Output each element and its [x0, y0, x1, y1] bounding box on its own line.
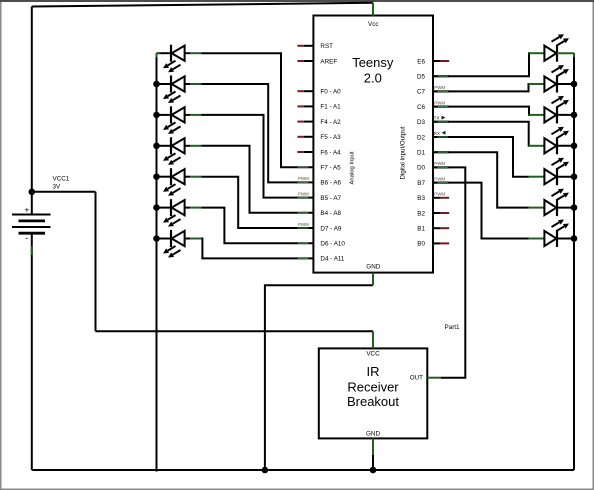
svg-text:B2: B2	[417, 210, 425, 217]
Teensy pin D3	[417, 116, 449, 127]
svg-text:B0: B0	[417, 241, 425, 248]
svg-text:F6 - A4: F6 - A4	[320, 149, 341, 156]
Teensy pin B3	[417, 192, 449, 203]
svg-text:Vcc: Vcc	[368, 21, 379, 28]
svg-text:3V: 3V	[53, 184, 62, 191]
svg-text:PWM: PWM	[298, 176, 309, 181]
LED LED9 (right column, row y=84)	[529, 65, 575, 93]
junction GND branch on bottom bus	[262, 467, 269, 474]
Teensy pin D6 - A10	[297, 241, 345, 248]
Teensy pin C6	[417, 100, 449, 111]
wire LED7 anode to pin D4-A11	[202, 239, 298, 259]
svg-text:C6: C6	[417, 104, 426, 111]
junction left bus at LED7	[153, 235, 160, 242]
svg-text:-: -	[25, 233, 28, 243]
IR Receiver Breakout module Part1	[319, 324, 460, 439]
Teensy pin F0 - A0	[297, 89, 341, 96]
junction right bus at LED10	[571, 112, 578, 119]
Teensy pin F7 - A5	[297, 165, 341, 172]
svg-text:Part1: Part1	[445, 324, 461, 331]
svg-text:D5: D5	[417, 74, 426, 81]
IR receiver GND pin and wire to bus	[372, 438, 374, 470]
junction left bus at LED6	[153, 204, 160, 211]
wire pin D2 to LED12	[433, 137, 529, 177]
Teensy pin B5 - A7	[297, 191, 341, 202]
Teensy pin AREF	[297, 58, 337, 65]
junction right bus at LED9	[571, 81, 578, 88]
wire pin C7 to LED9	[433, 84, 530, 91]
svg-text:B5 - A7: B5 - A7	[320, 195, 341, 202]
junction IR GND on bottom bus	[370, 467, 377, 474]
LED LED10 (right column, row y=114.9)	[529, 96, 575, 124]
svg-text:GND: GND	[366, 263, 380, 270]
Teensy GND pin (bottom)	[372, 273, 374, 286]
wire left rail battery+ up to top rail	[31, 7, 33, 192]
svg-text:PWM: PWM	[434, 85, 445, 90]
svg-text:D1: D1	[417, 150, 426, 157]
Teensy pin D5	[417, 74, 449, 81]
svg-text:B4 - A8: B4 - A8	[320, 210, 341, 217]
svg-text:B1: B1	[417, 226, 425, 233]
Teensy pin F1 - A1	[297, 104, 341, 111]
Teensy Vcc pin (top)	[372, 3, 374, 16]
svg-text:E6: E6	[417, 58, 425, 65]
wire pin D3 to LED11	[433, 122, 530, 146]
svg-text:F1 - A1: F1 - A1	[320, 104, 341, 111]
svg-text:VCC1: VCC1	[53, 176, 70, 183]
svg-text:TX: TX	[434, 116, 440, 121]
svg-text:PWM: PWM	[298, 222, 309, 227]
svg-text:B6 - A6: B6 - A6	[320, 180, 341, 187]
battery VCC1 3V	[12, 176, 70, 471]
svg-text:GND: GND	[366, 431, 380, 438]
svg-text:PWM: PWM	[434, 176, 445, 181]
Teensy pin B2	[417, 210, 449, 217]
wire LED2 anode to pin B6-A6	[202, 84, 298, 182]
junction node VCC1+ at battery	[29, 189, 36, 196]
Teensy pin F4 - A2	[297, 119, 341, 126]
Teensy pin E6	[417, 58, 449, 65]
svg-text:C7: C7	[417, 89, 426, 96]
LED LED3 (left column, row y=114.9)	[157, 106, 202, 133]
Teensy pin RST	[297, 43, 333, 50]
LED LED14 (right column, row y=238.5)	[529, 220, 575, 248]
svg-text:Breakout: Breakout	[347, 394, 399, 409]
LED LED12 (right column, row y=176.7)	[529, 158, 575, 186]
junction right bus at LED12	[571, 173, 578, 180]
Teensy pin F6 - A4	[297, 149, 341, 156]
junction right bus at LED14	[571, 235, 578, 242]
Teensy pin D7 - A9	[297, 222, 341, 233]
svg-text:IR: IR	[367, 364, 380, 379]
svg-text:Analog Input: Analog Input	[350, 151, 356, 184]
svg-text:RST: RST	[320, 43, 333, 50]
wire LED5 anode to pin D7-A9	[202, 177, 298, 228]
Teensy pin B0	[417, 241, 449, 248]
wire LED1 anode to pin F7-A5	[202, 53, 298, 167]
Teensy pin B7	[417, 176, 449, 187]
wire pin D0 to IR OUT	[433, 167, 465, 377]
wire LED4 anode to pin B4-A8	[202, 146, 298, 213]
svg-text:D0: D0	[417, 165, 426, 172]
svg-text:F4 - A2: F4 - A2	[320, 119, 341, 126]
wire top rail battery+ to Teensy Vcc	[32, 3, 373, 7]
junction right bus at LED11	[571, 143, 578, 150]
svg-text:RX: RX	[434, 131, 440, 136]
junction right bus at LED13	[571, 204, 578, 211]
wire pin B7 to LED14	[433, 183, 529, 239]
Teensy pin B6 - A6	[297, 176, 341, 187]
junction left bus at LED3	[153, 112, 160, 119]
wire battery+ to IR VCC (3 segments)	[32, 192, 373, 331]
svg-text:D6 - A10: D6 - A10	[320, 241, 345, 248]
IR receiver VCC pin	[372, 331, 374, 348]
wire bottom ground bus	[32, 469, 574, 471]
svg-text:F7 - A5: F7 - A5	[320, 165, 341, 172]
wire pin C6 to LED10	[433, 107, 530, 115]
svg-text:D3: D3	[417, 119, 426, 126]
svg-text:PWM: PWM	[434, 161, 445, 166]
svg-text:Digital Input/Output: Digital Input/Output	[400, 126, 407, 179]
junction left bus at LED5	[153, 173, 160, 180]
Teensy pin D2	[417, 131, 449, 142]
svg-text:PWM: PWM	[434, 100, 445, 105]
Teensy pin B4 - A8	[297, 210, 341, 217]
Teensy pin B1	[417, 226, 449, 233]
svg-text:Teensy: Teensy	[352, 55, 394, 70]
LED LED4 (left column, row y=145.8)	[157, 137, 202, 165]
svg-text:B3: B3	[417, 195, 425, 202]
svg-text:D2: D2	[417, 134, 426, 141]
svg-text:OUT: OUT	[410, 374, 423, 381]
wire left LED bus (cathode rail)	[156, 53, 158, 471]
LED LED1 (left column, row y=53.2)	[157, 45, 202, 72]
svg-text:D4 - A11: D4 - A11	[320, 256, 345, 263]
svg-text:Receiver: Receiver	[347, 380, 399, 395]
svg-text:AREF: AREF	[320, 58, 337, 65]
LED LED7 (left column, row y=238.5)	[157, 230, 202, 258]
LED LED13 (right column, row y=207.6)	[529, 189, 575, 217]
LED LED5 (left column, row y=176.7)	[157, 168, 202, 196]
LED LED6 (left column, row y=207.6)	[157, 199, 202, 227]
svg-text:B7: B7	[417, 180, 425, 187]
Teensy pin D1	[417, 150, 449, 157]
LED LED2 (left column, row y=84)	[157, 76, 202, 104]
wire pin D1 to LED13	[433, 152, 529, 207]
Teensy pin F5 - A3	[297, 134, 341, 141]
svg-text:PWM: PWM	[434, 192, 445, 197]
junction left bus at LED2	[153, 81, 160, 88]
wire LED3 anode to pin B5-A7	[202, 115, 298, 198]
svg-text:PWM: PWM	[298, 191, 309, 196]
Teensy pin D0	[417, 161, 449, 172]
svg-text:F0 - A0: F0 - A0	[320, 89, 341, 96]
wire LED6 anode to pin D6-A10	[202, 208, 298, 244]
wire right LED bus (cathode rail)	[573, 53, 575, 470]
svg-text:2.0: 2.0	[364, 71, 382, 86]
Teensy pin C7	[417, 85, 449, 96]
Teensy 2.0 module U1	[313, 16, 433, 273]
svg-text:+: +	[24, 204, 29, 214]
wire pin D5 to LED8	[433, 53, 530, 76]
LED LED11 (right column, row y=145.8)	[529, 127, 575, 155]
svg-text:VCC: VCC	[366, 351, 380, 358]
wire Teensy GND to bottom bus	[265, 285, 373, 470]
svg-text:F5 - A3: F5 - A3	[320, 134, 341, 141]
LED LED8 (right column, row y=53.2)	[529, 34, 575, 62]
svg-text:D7 - A9: D7 - A9	[320, 225, 341, 232]
IR receiver OUT pin	[427, 377, 441, 379]
Teensy pin D4 - A11	[297, 256, 345, 263]
junction left bus at LED4	[153, 143, 160, 150]
